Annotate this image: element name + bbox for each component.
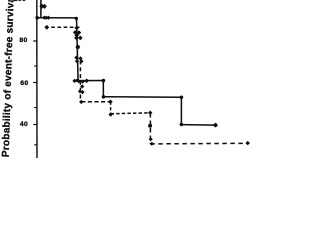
tick 70 minor [34, 65, 37, 67]
censor diamonds on first drop [39, 4, 44, 9]
diamond on dashed drop y139.2 [149, 137, 153, 141]
corner dot x181.4 y124.3 [180, 123, 184, 127]
cluster pair y32.5 [73, 30, 78, 35]
solid level 1 [37, 17, 77, 19]
diamond end of dashed level 2 [108, 100, 113, 105]
cluster pair y58 [74, 56, 78, 60]
solid drop [102, 81, 104, 97]
solid drop [180, 97, 182, 124]
cluster pair y37.9 [74, 36, 79, 41]
end diamond of solid curve [213, 123, 218, 128]
diamond end of dashed level 4 [245, 141, 250, 145]
corner dot end of level 1 [75, 17, 78, 20]
start diamond of dashed curve [44, 25, 49, 30]
markers [35, 0, 250, 146]
event dot y47 [76, 45, 80, 49]
dashed drop 3 [149, 113, 151, 144]
censor diamonds on level 1 [42, 16, 46, 20]
corner cluster diamonds y81 [72, 79, 76, 83]
dashed level 2 [81, 101, 110, 103]
diamond pair y91.5 [78, 89, 82, 93]
corner dot x103.7 y80 [102, 79, 106, 83]
svg-text:Probability of event-free surv: Probability of event-free survival [1, 0, 17, 157]
svg-text:60: 60 [20, 80, 28, 87]
cluster diamond y28 [74, 26, 79, 31]
curve start dot on axis [35, 16, 39, 20]
tick 50 minor [34, 107, 37, 109]
solid survival curve [37, 0, 216, 125]
cluster pair y61 [75, 59, 79, 63]
tick 40 [33, 124, 37, 126]
solid long drop [77, 18, 79, 81]
diamond at dashed corner y114.5 [109, 112, 113, 116]
corner dot x103.5 y96.8 [102, 95, 106, 99]
event dot on dashed drop y125.7 [148, 124, 152, 128]
tick 60 [33, 82, 37, 84]
dashed drop 2 [110, 102, 112, 115]
tick 30 minor [34, 144, 37, 146]
dashed level 3 [111, 113, 151, 114]
censor diamond cut at top edge [40, 0, 43, 1]
dashed level 1 [51, 26, 79, 28]
tick 80 [33, 40, 37, 42]
dashed drop 1 [79, 61, 81, 102]
corner diamond of dashed level 2 start [79, 100, 83, 104]
svg-text:40: 40 [20, 121, 28, 128]
solid level 4 [181, 124, 215, 127]
solid step drop from 100% [40, 0, 42, 18]
dashed level 4 [150, 142, 246, 145]
solid level 3 [104, 96, 182, 98]
diamond start of dashed level 4 [150, 142, 154, 146]
corner dot level 2 [76, 79, 79, 82]
solid level 2 [78, 80, 104, 82]
cluster diamond y35.4 [75, 33, 80, 38]
corner dot x181.4 y97.4 [180, 96, 184, 100]
svg-text:80: 80 [19, 37, 27, 44]
dashed survival curve [51, 27, 246, 144]
y-axis [36, 0, 38, 158]
diamond on dashed drop y86.6 [80, 84, 84, 88]
diamond end of dashed level 3 [148, 111, 152, 115]
